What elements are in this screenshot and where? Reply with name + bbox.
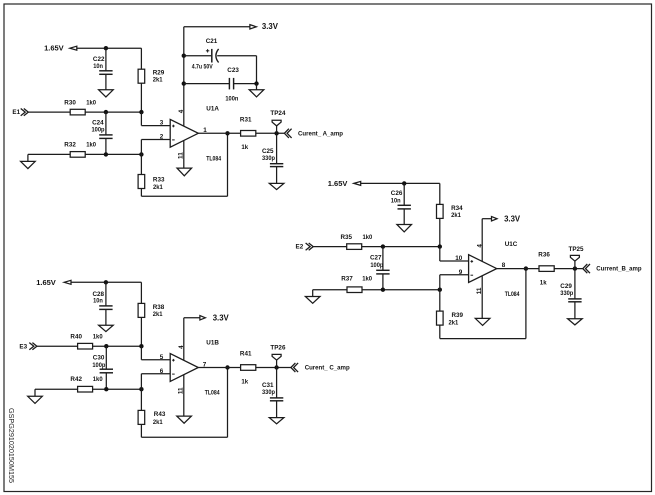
svg-text:Curent_ C_amp: Curent_ C_amp [305, 365, 350, 372]
resistor R40 1k0 [70, 333, 103, 349]
svg-text:R40: R40 [70, 333, 82, 340]
svg-text:C25: C25 [262, 148, 274, 155]
pin 4 label U1B [178, 345, 185, 349]
svg-text:1k0: 1k0 [93, 376, 103, 383]
svg-text:GSPG291020150M155: GSPG291020150M155 [7, 408, 14, 483]
ground (C21/C23) [249, 84, 264, 97]
resistor R38 2k1 [138, 282, 165, 346]
wire output pin 1 [198, 127, 240, 134]
wire pin9 node riser [439, 275, 441, 311]
wire R40 to pin5 node [93, 344, 144, 348]
svg-text:330p: 330p [262, 155, 275, 162]
svg-text:3.3V: 3.3V [504, 214, 521, 223]
op-amp U1A (TL084) [170, 106, 221, 163]
svg-text:R39: R39 [452, 312, 464, 319]
connector E2 [296, 243, 347, 251]
ground (C28) [99, 309, 114, 331]
svg-text:9: 9 [459, 269, 463, 276]
svg-text:R36: R36 [538, 252, 550, 259]
wire output pin 7 [198, 361, 240, 368]
power net 3.3V (U1C supply) [482, 214, 521, 261]
capacitor C23 100n [182, 67, 259, 103]
svg-text:2k1: 2k1 [153, 311, 163, 318]
capacitor C21 4.7u 50V (polarized) [182, 38, 257, 71]
svg-text:2k1: 2k1 [449, 319, 459, 326]
capacitor C30 100p [92, 346, 113, 389]
pin 11 stub U1C [476, 276, 483, 318]
svg-text:100n: 100n [225, 96, 238, 103]
svg-text:2k1: 2k1 [153, 77, 163, 84]
wire pin5 node down [140, 346, 142, 360]
pin 4 label U1C [476, 244, 483, 248]
power net 1.65V (U1B bias) [36, 278, 141, 287]
svg-text:2k1: 2k1 [153, 184, 163, 191]
svg-text:10: 10 [455, 255, 463, 262]
ground (C22) [99, 74, 114, 97]
wire R36 to output connector [554, 266, 583, 270]
ground (C25) [269, 167, 284, 190]
resistor R35 1k0 [341, 234, 373, 249]
sidebar figure code GSPG291020150M155 [7, 408, 14, 483]
svg-text:1.65V: 1.65V [36, 278, 56, 287]
svg-text:1.65V: 1.65V [44, 44, 64, 53]
svg-text:1k0: 1k0 [93, 333, 103, 340]
svg-text:4: 4 [476, 244, 483, 248]
svg-text:2k1: 2k1 [153, 419, 163, 426]
svg-text:4: 4 [178, 109, 185, 113]
capacitor C22 10n [93, 48, 113, 74]
svg-text:C21: C21 [206, 38, 218, 45]
wire to pin 6 [141, 368, 170, 375]
svg-text:Current_B_amp: Current_B_amp [596, 266, 641, 273]
svg-text:1k0: 1k0 [362, 275, 372, 282]
svg-text:1k: 1k [241, 144, 248, 151]
pin 11 stub U1B [178, 375, 185, 416]
svg-text:5: 5 [160, 354, 164, 361]
connector E3 [19, 343, 77, 351]
svg-text:8: 8 [502, 262, 506, 269]
pin 11 stub and label [178, 141, 185, 169]
svg-text:TL084: TL084 [205, 390, 220, 397]
svg-text:10n: 10n [93, 298, 103, 305]
svg-text:330p: 330p [262, 389, 275, 396]
svg-text:C27: C27 [370, 254, 382, 261]
svg-text:11: 11 [476, 287, 483, 294]
capacitor C25 330p [262, 133, 283, 166]
wire R32 to pin2 node [85, 152, 143, 156]
power net 3.3V (U1A supply) [184, 22, 279, 31]
svg-text:3.3V: 3.3V [213, 313, 230, 322]
svg-text:1k0: 1k0 [363, 234, 373, 241]
resistor R30 1k0 [64, 100, 96, 115]
capacitor C26 10n [391, 183, 411, 209]
wire R31 to output connector [256, 131, 285, 135]
connector Current_C_amp [291, 363, 350, 372]
capacitor C27 100p [370, 247, 390, 290]
svg-text:R30: R30 [64, 100, 76, 107]
resistor R37 1k0 [341, 275, 372, 292]
wire R35 to pin10 node [362, 244, 442, 248]
svg-text:R31: R31 [240, 116, 252, 123]
wire 3.3V rail down to pin 4 [183, 27, 185, 126]
svg-text:100p: 100p [92, 127, 105, 134]
power net 1.65V (U1A bias) [44, 44, 141, 53]
resistor R41 1k [240, 351, 256, 386]
svg-text:R38: R38 [153, 304, 165, 311]
svg-text:10n: 10n [93, 63, 103, 70]
svg-text:U1C: U1C [505, 241, 518, 248]
wire to pin 10 [440, 255, 469, 262]
test point TP25 [569, 246, 585, 269]
svg-text:U1A: U1A [206, 106, 219, 113]
capacitor C29 330p [560, 269, 581, 302]
svg-text:R32: R32 [64, 142, 76, 149]
svg-text:6: 6 [160, 368, 164, 375]
connector E1 [12, 109, 70, 117]
wire C21 right side down [256, 56, 258, 84]
connector Current_B_amp [583, 264, 642, 273]
pin 4 label [178, 109, 185, 113]
svg-text:C23: C23 [227, 67, 239, 74]
wire output pin 8 [497, 262, 539, 269]
svg-text:2: 2 [160, 134, 164, 141]
svg-text:R37: R37 [341, 275, 353, 282]
ground (pin 11) [177, 168, 192, 176]
svg-text:C26: C26 [391, 190, 403, 197]
svg-text:R33: R33 [153, 176, 165, 183]
svg-text:TP24: TP24 [270, 110, 286, 117]
capacitor C24 100p [92, 112, 113, 154]
resistor R42 1k0 [70, 376, 103, 392]
resistor R31 1k [240, 116, 256, 151]
ground (C31) [269, 401, 284, 424]
svg-text:TL084: TL084 [505, 291, 520, 298]
power net 3.3V (U1B supply) [184, 313, 230, 360]
wire to pin 2 [141, 134, 170, 141]
resistor R34 2k1 [437, 183, 464, 246]
svg-text:Curent_ A_amp: Curent_ A_amp [298, 130, 343, 137]
svg-text:7: 7 [203, 361, 207, 368]
test point TP24 [270, 110, 286, 133]
svg-text:11: 11 [178, 387, 185, 394]
ground (R32 input) [21, 154, 71, 168]
ground (C26) [397, 209, 412, 232]
svg-text:1k: 1k [540, 280, 547, 287]
svg-text:E2: E2 [296, 244, 304, 251]
svg-text:11: 11 [178, 152, 185, 159]
svg-text:330p: 330p [560, 290, 573, 297]
capacitor C31 330p [262, 368, 283, 401]
svg-text:E3: E3 [19, 343, 27, 350]
svg-text:C30: C30 [93, 354, 105, 361]
ground (R42 input) [28, 389, 78, 403]
svg-text:4.7u 50V: 4.7u 50V [192, 63, 214, 70]
wire to pin 9 [440, 269, 469, 276]
wire pin6 node riser [140, 374, 142, 411]
svg-text:1: 1 [203, 127, 207, 134]
resistor R43 2k1 [138, 410, 166, 426]
test point TP26 [270, 344, 286, 367]
resistor R36 1k [538, 252, 554, 287]
wire R30 to pin3 node [85, 110, 143, 114]
power net 1.65V (U1C bias) [328, 179, 440, 188]
wire R41 to output connector [256, 365, 291, 369]
wire feedback loop U1B [141, 365, 229, 437]
svg-text:1k0: 1k0 [86, 142, 96, 149]
svg-text:100p: 100p [92, 362, 105, 369]
svg-text:1.65V: 1.65V [328, 179, 348, 188]
resistor R29 2k1 [138, 48, 165, 112]
svg-text:TP26: TP26 [270, 344, 286, 351]
wire feedback loop [141, 131, 229, 196]
wire to pin 5 [141, 354, 170, 361]
svg-text:3: 3 [160, 120, 164, 127]
wire to pin 3 [141, 120, 170, 127]
ground (pin 11 U1B) [177, 416, 192, 423]
svg-text:10n: 10n [391, 198, 401, 205]
svg-text:E1: E1 [12, 109, 20, 116]
svg-text:1k: 1k [241, 378, 248, 385]
svg-text:1k0: 1k0 [86, 100, 96, 107]
op-amp U1C (TL084) [469, 241, 520, 298]
svg-text:R41: R41 [240, 351, 252, 358]
wire pin10 node down [439, 247, 441, 261]
svg-text:C29: C29 [560, 283, 572, 290]
capacitor C28 10n [93, 282, 113, 309]
wire pin2 node riser [140, 140, 142, 175]
connector Current_A_amp [284, 129, 343, 138]
svg-text:R35: R35 [341, 234, 353, 241]
svg-text:R34: R34 [451, 205, 463, 212]
svg-text:R29: R29 [153, 69, 165, 76]
svg-text:4: 4 [178, 345, 185, 349]
svg-text:100p: 100p [370, 262, 383, 269]
wire R42 to pin6 node [93, 387, 144, 391]
svg-text:TL084: TL084 [206, 155, 221, 162]
svg-text:R42: R42 [70, 376, 82, 383]
resistor R32 1k0 [64, 142, 96, 158]
svg-text:TP25: TP25 [569, 246, 585, 253]
svg-text:2k1: 2k1 [451, 212, 461, 219]
ground (C29) [568, 302, 583, 325]
wire pin3 node down [140, 112, 142, 126]
op-amp U1B (TL084) [170, 340, 220, 397]
resistor R39 2k1 [437, 311, 464, 326]
ground (pin 11 U1C) [475, 318, 490, 325]
svg-text:3.3V: 3.3V [262, 22, 279, 31]
wire R37 to pin9 node [362, 288, 442, 292]
ground (R37 input) [305, 290, 347, 304]
svg-text:C31: C31 [262, 382, 274, 389]
resistor R33 2k1 [138, 175, 165, 191]
wire feedback loop U1C [440, 266, 528, 338]
svg-text:R43: R43 [154, 411, 166, 418]
svg-text:U1B: U1B [206, 340, 219, 347]
